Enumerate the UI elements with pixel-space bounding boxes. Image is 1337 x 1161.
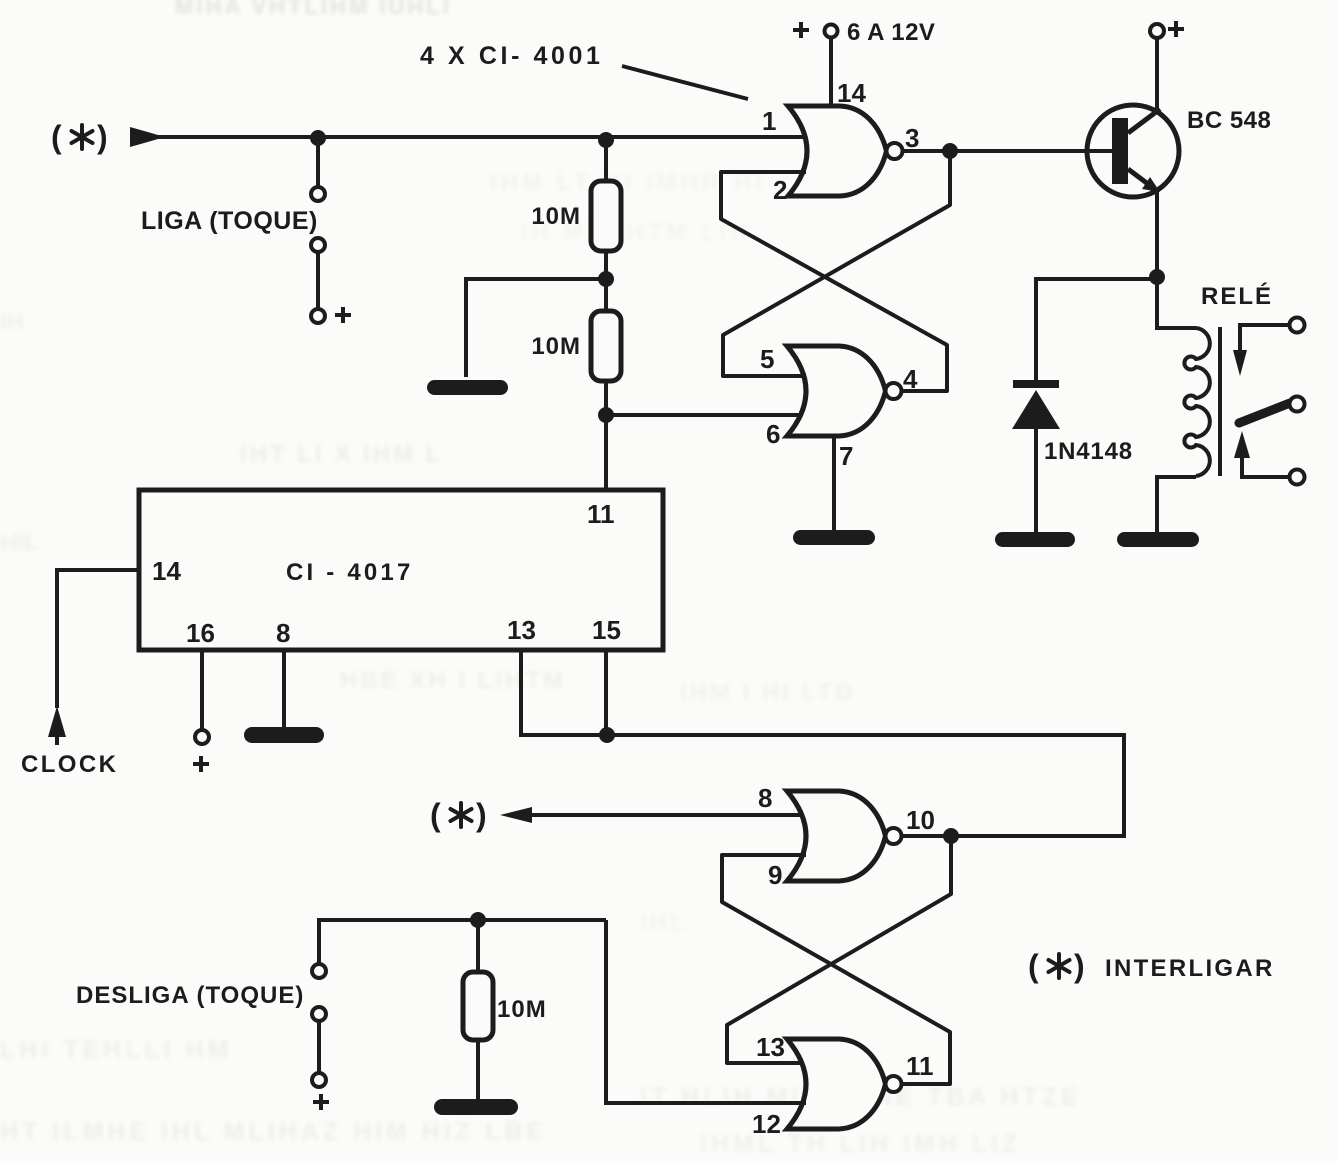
svg-text:DESLIGA (TOQUE): DESLIGA (TOQUE) (76, 982, 304, 1009)
wire diode to ground (1034, 429, 1038, 533)
junction bus/LIGA (310, 130, 326, 146)
ground (pin 8) (244, 727, 324, 743)
svg-text:): ) (97, 119, 108, 155)
relay K1 coil (1184, 328, 1209, 476)
svg-text:8: 8 (758, 783, 772, 813)
svg-text:IHT LI X IHM L: IHT LI X IHM L (240, 441, 443, 468)
svg-text:RELÉ: RELÉ (1201, 282, 1273, 310)
wire collector (1155, 38, 1159, 112)
svg-text:LIGA (TOQUE): LIGA (TOQUE) (141, 207, 318, 235)
diode D1 1N4148 (1012, 380, 1060, 429)
svg-text:IHM I HI LTD: IHM I HI LTD (680, 679, 856, 706)
svg-text:IHML TH LIH IMH LIZ: IHML TH LIH IMH LIZ (700, 1130, 1021, 1158)
node (*) output label (430, 797, 487, 833)
svg-text:10M: 10M (497, 996, 547, 1023)
wire node to ground stub (466, 279, 600, 377)
svg-text:10M: 10M (531, 333, 581, 360)
wire pin 16 to + (195, 650, 209, 744)
svg-text:4: 4 (903, 364, 918, 394)
wire junction to diode (1036, 279, 1157, 382)
svg-text:16: 16 (186, 618, 215, 648)
NOR gate U1c (787, 791, 902, 881)
ground (relay) (1117, 532, 1199, 547)
svg-text:6: 6 (766, 419, 780, 449)
wire emitter to junction (1155, 188, 1159, 277)
junction DESLIGA/R3 (470, 912, 486, 928)
wire out10 to junction (902, 834, 951, 838)
junction pins 13/15 (599, 727, 615, 743)
wire bus to R1 (604, 140, 608, 181)
wire out10 to pin13 (cross-couple) (727, 836, 951, 1063)
svg-text:HT ILMHE IHL MLIHAZ HIM HIZ LB: HT ILMHE IHL MLIHAZ HIM HIZ LBE (0, 1118, 547, 1146)
wire pin 8 to ground (282, 650, 286, 727)
junction R2/pin6/pin11 (598, 407, 614, 423)
svg-text:15: 15 (592, 615, 621, 645)
svg-text:3: 3 (905, 123, 919, 153)
junction R1/R2 (598, 271, 614, 287)
svg-text:1: 1 (762, 106, 776, 136)
svg-text:LHI TEHLLI HM: LHI TEHLLI HM (0, 1036, 233, 1064)
svg-text:IH: IH (0, 309, 24, 336)
svg-text:HBE XH I LIHTM: HBE XH I LIHTM (340, 667, 566, 694)
wire pin 13 (521, 650, 600, 735)
svg-text:MIHA VHTLIHM IUHLI: MIHA VHTLIHM IUHLI (175, 0, 452, 19)
svg-text:13: 13 (756, 1032, 785, 1062)
wire: input arrow (130, 127, 165, 147)
junction out10 (943, 828, 959, 844)
relay contact bottom with arrow (1234, 431, 1305, 485)
ground (diode) (995, 532, 1075, 547)
wire gate U1a output to Q1 base (903, 149, 1112, 153)
svg-text:INTERLIGAR: INTERLIGAR (1105, 955, 1275, 982)
svg-text:11: 11 (587, 499, 615, 529)
wire R3 top (476, 920, 480, 972)
power + (LIGA) (335, 307, 351, 323)
svg-text:10M: 10M (531, 203, 581, 230)
wire out3 to pin5 (cross-couple) (723, 151, 950, 376)
svg-text:): ) (476, 797, 487, 833)
wire junction to gate U1b pin 6 (606, 413, 806, 417)
power terminal + (collector) (1150, 21, 1184, 38)
ground (left of R2) (427, 380, 508, 395)
wire output arrow to pin 8 (500, 807, 806, 823)
svg-text:14: 14 (837, 78, 866, 108)
svg-text:(: ( (1028, 948, 1039, 984)
wire DESLIGA bus (319, 920, 606, 963)
svg-text:BC 548: BC 548 (1187, 107, 1271, 134)
wire R1-R2 (604, 251, 608, 311)
svg-text:7: 7 (839, 441, 853, 471)
svg-text:9: 9 (768, 860, 782, 890)
junction bus/R1 (598, 132, 614, 148)
wire pin7 to ground (832, 436, 836, 531)
svg-text:6 A 12V: 6 A 12V (847, 19, 935, 46)
svg-text:(: ( (430, 797, 441, 833)
transistor Q1 (1086, 105, 1179, 197)
svg-text:4 X CI- 4001: 4 X CI- 4001 (420, 42, 604, 70)
svg-text:(: ( (51, 119, 62, 155)
svg-text:12: 12 (752, 1109, 781, 1139)
power + (pin16) (193, 756, 209, 772)
relay blade contact (1239, 397, 1305, 424)
NOR gate U1b (787, 346, 902, 436)
svg-text:2: 2 (773, 175, 787, 205)
IC U2 CI-4017 box (139, 490, 663, 650)
switch LIGA (TOQUE) touch plates (311, 137, 325, 323)
svg-text:IHL: IHL (640, 909, 688, 936)
NOR gate U1d (787, 1039, 902, 1129)
ground (pin 7) (793, 530, 875, 545)
svg-text:HIL: HIL (0, 529, 39, 556)
resistor R3 10M (463, 972, 493, 1040)
switch DESLIGA (TOQUE) touch plates (312, 964, 326, 1087)
svg-text:8: 8 (276, 618, 290, 648)
relay core (1218, 327, 1222, 476)
label (*) INTERLIGAR (1028, 948, 1275, 984)
wire latch2 feedback from pins 13/15 (607, 735, 1124, 836)
svg-text:CI - 4017: CI - 4017 (286, 559, 414, 586)
clock input arrow (48, 706, 66, 745)
leader line to gate U1a (622, 66, 748, 99)
svg-text:10: 10 (906, 805, 935, 835)
junction emitter/diode/relay (1149, 269, 1165, 285)
svg-text:CLOCK: CLOCK (21, 751, 118, 778)
svg-text:11: 11 (906, 1051, 934, 1081)
wire pin 15 (604, 650, 608, 735)
svg-text:5: 5 (760, 344, 774, 374)
node (*) input label (51, 119, 108, 155)
wire pin 14 to clock arrow (57, 570, 139, 708)
junction out3 (942, 143, 958, 159)
wire R3 to ground (476, 1040, 480, 1100)
power terminal + 6 A 12V (793, 22, 838, 106)
resistor R2 10M (591, 311, 621, 381)
wire pin9 to out11 (cross-couple) (722, 855, 950, 1084)
wire junction down to CI-4017 pin 11 (604, 381, 608, 490)
wire pin 12 to DESLIGA branch (606, 920, 806, 1103)
resistor R1 10M (591, 181, 621, 251)
ground (R3) (434, 1099, 518, 1115)
wire: top bus (158, 135, 806, 139)
svg-text:1N4148: 1N4148 (1044, 438, 1133, 465)
wire junction to relay coil (1157, 277, 1196, 328)
svg-text:14: 14 (152, 556, 181, 586)
power + (DESLIGA) (313, 1094, 329, 1110)
relay contact top with arrow (1233, 318, 1305, 377)
svg-text:13: 13 (507, 615, 536, 645)
wire pin2 from out4 (cross-couple) (721, 172, 947, 391)
NOR gate U1a (788, 106, 903, 196)
wire coil to ground (1157, 477, 1196, 533)
svg-text:): ) (1074, 948, 1085, 984)
